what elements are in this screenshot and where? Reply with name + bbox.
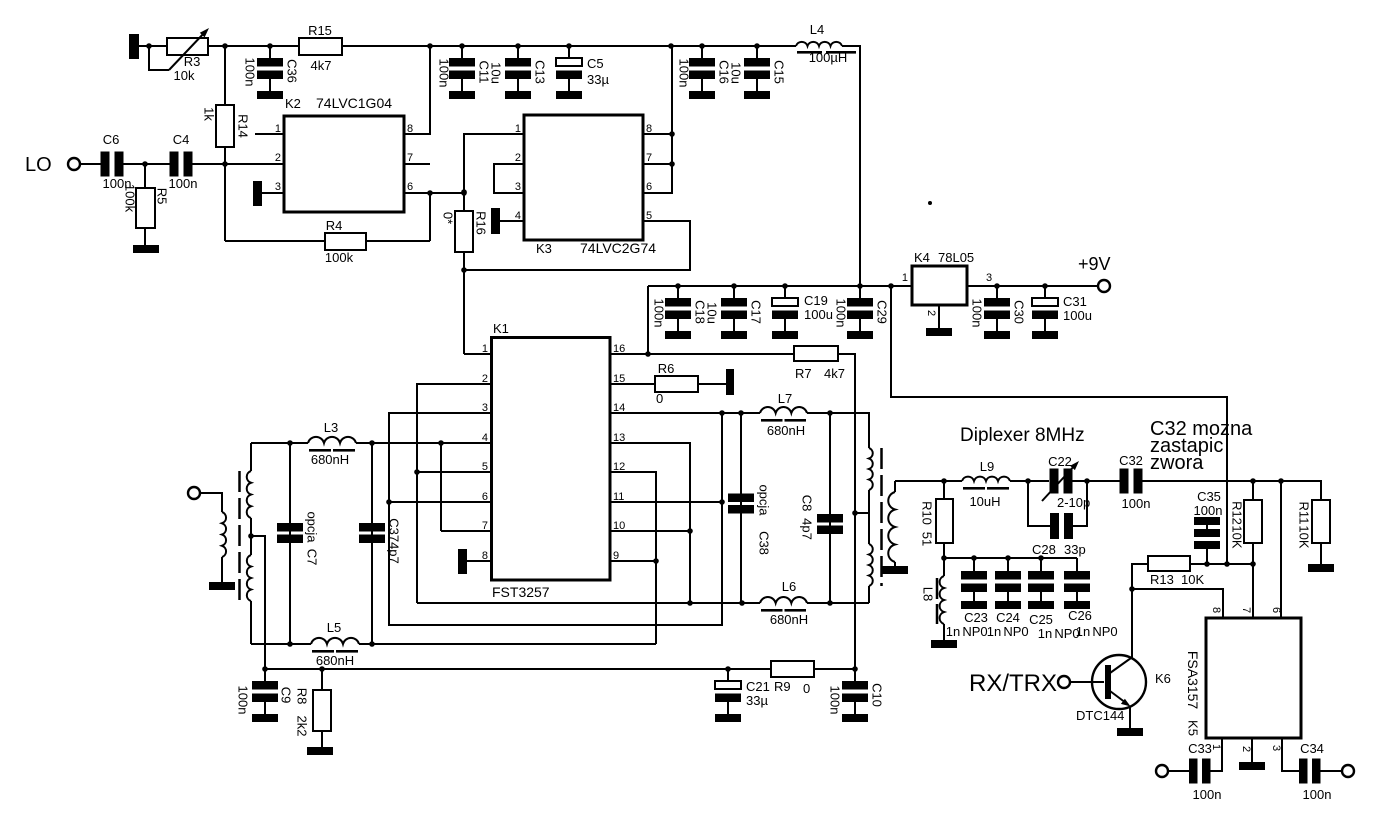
wire (center tap) [251, 536, 265, 669]
wire [359, 643, 656, 645]
ground [133, 245, 159, 253]
svg-text:C36: C36 [285, 59, 300, 83]
wire [647, 286, 649, 354]
inductor L8 [943, 558, 945, 576]
wire [123, 163, 170, 165]
svg-text:1: 1 [902, 272, 908, 284]
junction [1278, 478, 1284, 484]
svg-text:3: 3 [275, 181, 281, 193]
junction [438, 440, 444, 446]
svg-text:100n: 100n [1193, 787, 1222, 802]
junction [857, 283, 863, 289]
wire [643, 46, 672, 193]
svg-text:1n: 1n [1076, 624, 1090, 639]
svg-text:4p7: 4p7 [800, 518, 815, 540]
svg-text:0*: 0* [441, 212, 456, 224]
junction [459, 43, 465, 49]
svg-text:100µH: 100µH [809, 50, 848, 65]
wire (L5 line) [251, 643, 311, 645]
junction [994, 283, 1000, 289]
resistor R6 [610, 383, 655, 385]
svg-text:C22: C22 [1048, 454, 1072, 469]
svg-text:2-10p: 2-10p [1057, 495, 1090, 510]
resistor R7 [794, 346, 838, 361]
capacitor C7 [289, 443, 291, 644]
svg-text:C26: C26 [1068, 608, 1092, 623]
svg-text:100n: 100n [243, 58, 258, 87]
terminal RX out [1156, 765, 1168, 777]
svg-text:100n: 100n [834, 299, 849, 328]
wire [648, 285, 912, 287]
resistor R9 [771, 661, 814, 677]
svg-text:L6: L6 [782, 579, 796, 594]
ground [1117, 728, 1143, 736]
svg-text:33µ: 33µ [587, 72, 609, 87]
svg-text:R12: R12 [1230, 501, 1245, 525]
svg-text:C7: C7 [305, 549, 320, 566]
inductor L4 [796, 42, 842, 46]
svg-text:10u: 10u [729, 62, 744, 84]
junction [827, 600, 833, 606]
inductor L6 [760, 597, 807, 603]
svg-text:C6: C6 [103, 132, 120, 147]
wire [894, 481, 896, 492]
ground [926, 328, 952, 336]
svg-text:C15: C15 [772, 60, 787, 84]
junction [146, 43, 152, 49]
wire [190, 163, 284, 165]
wire [868, 490, 870, 544]
junction [687, 528, 693, 534]
svg-text:8: 8 [1210, 607, 1222, 613]
svg-text:3: 3 [986, 272, 992, 284]
junction [852, 510, 858, 516]
svg-text:74LVC1G04: 74LVC1G04 [316, 95, 392, 111]
capacitor C25 [1040, 558, 1042, 571]
svg-text:100n: 100n [652, 299, 667, 328]
svg-text:10K: 10K [1230, 525, 1245, 548]
svg-text:78L05: 78L05 [938, 250, 974, 265]
junction [888, 283, 894, 289]
svg-text:opcja: opcja [305, 511, 320, 543]
svg-text:100n: 100n [828, 686, 843, 715]
junction [852, 666, 858, 672]
capacitor C13 [517, 46, 519, 59]
wire [944, 557, 1077, 559]
wire [251, 442, 308, 444]
resistor R11 [1312, 500, 1330, 543]
svg-text:R4: R4 [326, 218, 343, 233]
svg-text:FSA3157: FSA3157 [1185, 651, 1201, 710]
ground [209, 582, 235, 590]
wire [467, 560, 491, 562]
wire [807, 413, 869, 448]
svg-text:7: 7 [1240, 607, 1252, 613]
svg-text:33µ: 33µ [746, 693, 768, 708]
wire (center tap) [855, 512, 869, 514]
svg-text:L7: L7 [778, 391, 792, 406]
wire [417, 602, 760, 604]
svg-text:100n: 100n [970, 299, 985, 328]
svg-text:C5: C5 [587, 56, 604, 71]
svg-text:L5: L5 [327, 620, 341, 635]
junction [1084, 478, 1090, 484]
junction [1005, 555, 1011, 561]
wire [842, 46, 860, 286]
svg-text:3: 3 [515, 181, 521, 193]
svg-text:10u: 10u [489, 62, 504, 84]
wire [643, 163, 672, 165]
capacitor C4 [170, 152, 179, 177]
wire [265, 668, 771, 670]
wire [250, 518, 252, 555]
inductor L3 [308, 437, 356, 443]
transformer T1 secondary lower [247, 555, 251, 601]
transformer T1 core [238, 471, 241, 601]
wire [610, 560, 656, 562]
svg-text:C25: C25 [1029, 612, 1053, 627]
svg-text:100n: 100n [236, 686, 251, 715]
ground [1308, 564, 1334, 572]
wire [464, 353, 491, 355]
svg-text:2: 2 [925, 310, 937, 316]
svg-text:10u: 10u [705, 302, 720, 324]
capacitor C26 [1076, 558, 1078, 571]
svg-text:C30: C30 [1012, 300, 1027, 324]
junction [386, 499, 392, 505]
svg-text:R9: R9 [774, 679, 791, 694]
junction [427, 43, 433, 49]
svg-text:R7: R7 [795, 366, 812, 381]
svg-text:C35: C35 [1197, 489, 1221, 504]
capacitor C5 [568, 46, 570, 59]
svg-text:10uH: 10uH [969, 494, 1000, 509]
wire [938, 305, 940, 328]
wire [80, 163, 101, 165]
wire [610, 472, 656, 644]
capacitor C6 [101, 152, 110, 177]
svg-text:100k: 100k [325, 250, 354, 265]
junction [725, 666, 731, 672]
svg-text:74LVC2G74: 74LVC2G74 [580, 240, 656, 256]
junction [971, 555, 977, 561]
wire [610, 530, 690, 532]
svg-text:4k7: 4k7 [311, 58, 332, 73]
wire [1010, 480, 1049, 482]
wire [441, 530, 491, 532]
svg-text:2: 2 [515, 152, 521, 164]
svg-text:K1: K1 [493, 321, 509, 336]
junction [1025, 478, 1031, 484]
svg-text:L3: L3 [324, 420, 338, 435]
junction [1042, 283, 1048, 289]
IC K1 FST3257 [492, 338, 611, 581]
wire [250, 443, 252, 471]
junction [739, 600, 745, 606]
svg-text:C10: C10 [870, 683, 885, 707]
svg-text:100n: 100n [169, 176, 198, 191]
junction [719, 499, 725, 505]
svg-text:NP0: NP0 [1092, 624, 1117, 639]
junction [427, 190, 433, 196]
junction [461, 190, 467, 196]
ground [129, 34, 139, 59]
ground [458, 549, 467, 574]
ground [931, 640, 957, 648]
wire [440, 443, 442, 531]
junction [1250, 561, 1256, 567]
svg-text:C17: C17 [749, 300, 764, 324]
svg-text:LO: LO [25, 154, 52, 176]
svg-text:100n: 100n [1194, 503, 1223, 518]
junction [369, 440, 375, 446]
svg-text:7: 7 [407, 152, 413, 164]
capacitor C22 (trimmer) [1050, 469, 1059, 494]
capacitor C35 [1194, 517, 1220, 525]
wire [417, 471, 491, 473]
IC K3 74LVC2G74 [524, 115, 643, 240]
svg-text:C34: C34 [1300, 741, 1324, 756]
svg-text:10K: 10K [1297, 525, 1312, 548]
svg-text:33p: 33p [1064, 542, 1086, 557]
svg-text:C23: C23 [964, 610, 988, 625]
wire [1132, 589, 1223, 618]
svg-text:100u: 100u [804, 307, 833, 322]
junction [248, 533, 254, 539]
wire [1321, 770, 1343, 772]
wire (TX bias) [891, 286, 1227, 564]
svg-text:Diplexer 8MHz: Diplexer 8MHz [960, 425, 1085, 446]
svg-text:3: 3 [1270, 745, 1282, 751]
svg-text:2k2: 2k2 [295, 716, 310, 737]
resistor R14 [224, 46, 226, 105]
svg-text:2: 2 [1240, 746, 1252, 752]
svg-text:1n: 1n [946, 624, 960, 639]
junction [669, 161, 675, 167]
junction [369, 641, 375, 647]
junction [1224, 561, 1230, 567]
wire [404, 163, 430, 165]
svg-text:C374p7: C374p7 [387, 518, 402, 564]
wire [1251, 738, 1253, 762]
svg-text:10k: 10k [174, 68, 195, 83]
svg-text:NP0: NP0 [962, 624, 987, 639]
svg-text:C33: C33 [1188, 741, 1212, 756]
junction [566, 43, 572, 49]
wire [250, 601, 252, 644]
svg-text:K3: K3 [536, 241, 552, 256]
svg-text:R10: R10 [920, 501, 935, 525]
junction [731, 283, 737, 289]
svg-text:6: 6 [407, 181, 413, 193]
transformer T1 secondary upper [247, 471, 251, 518]
wire [389, 413, 722, 625]
wire [139, 45, 167, 47]
capacitor C37 [371, 443, 373, 644]
ground [726, 369, 734, 395]
ground [307, 747, 333, 755]
svg-text:K6: K6 [1155, 671, 1171, 686]
wire [610, 443, 690, 603]
svg-text:+9V: +9V [1078, 254, 1111, 274]
junction [941, 555, 947, 561]
capacitor C28 [1028, 481, 1050, 526]
svg-text:100n: 100n [1122, 496, 1151, 511]
wire [610, 412, 760, 414]
svg-text:R15: R15 [308, 23, 332, 38]
svg-text:6: 6 [646, 181, 652, 193]
stray mark [928, 201, 932, 205]
junction [461, 189, 467, 195]
junction [1250, 478, 1256, 484]
capacitor C29 [859, 286, 861, 299]
svg-text:680nH: 680nH [770, 612, 808, 627]
wire [1190, 563, 1253, 565]
wire [895, 480, 962, 482]
resistor R10 [943, 481, 945, 499]
svg-text:100n: 100n [1303, 787, 1332, 802]
resistor R16 [463, 192, 465, 211]
wire [1281, 481, 1321, 500]
resistor R8 [321, 669, 323, 690]
wire [464, 221, 690, 270]
junction [1038, 555, 1044, 561]
junction [222, 161, 228, 167]
resistor R3 (trimmer) [167, 38, 208, 55]
junction [687, 600, 693, 606]
junction [1204, 561, 1210, 567]
svg-text:L9: L9 [980, 459, 994, 474]
svg-text:C32: C32 [1119, 453, 1143, 468]
svg-text:C19: C19 [804, 293, 828, 308]
capacitor C18 [677, 286, 679, 299]
junction [719, 410, 725, 416]
junction [461, 267, 467, 273]
svg-text:K5: K5 [1186, 720, 1201, 736]
wire [868, 586, 870, 603]
wire [838, 354, 855, 669]
svg-text:NP0: NP0 [1003, 624, 1028, 639]
junction [738, 410, 744, 416]
junction [675, 283, 681, 289]
wire [389, 501, 491, 503]
junction [262, 666, 268, 672]
svg-text:51: 51 [920, 532, 935, 546]
transistor K6 [1092, 655, 1146, 709]
svg-text:R14: R14 [236, 114, 251, 138]
transformer T1 primary [222, 512, 226, 557]
svg-text:1n: 1n [987, 624, 1001, 639]
svg-text:FST3257: FST3257 [492, 584, 550, 600]
wire [225, 240, 325, 242]
capacitor C33 [1189, 759, 1198, 784]
svg-text:R13: R13 [1150, 572, 1174, 587]
junction [142, 161, 148, 167]
svg-text:RX/TRX: RX/TRX [969, 670, 1057, 697]
svg-text:1k: 1k [202, 107, 217, 121]
inductor L7 [760, 407, 807, 413]
svg-text:R3: R3 [184, 54, 201, 69]
ground [1239, 762, 1265, 770]
resistor R4 [325, 233, 366, 250]
capacitor C38 [740, 413, 742, 603]
svg-text:C29: C29 [875, 300, 890, 324]
junction [287, 440, 293, 446]
capacitor C30 [996, 286, 998, 299]
svg-text:100u: 100u [1063, 308, 1092, 323]
junction [782, 283, 788, 289]
wire [643, 133, 672, 135]
junction [1129, 586, 1135, 592]
svg-text:C31: C31 [1063, 294, 1087, 309]
svg-text:C13: C13 [533, 60, 548, 84]
wire [610, 501, 722, 503]
junction [319, 666, 325, 672]
svg-text:680nH: 680nH [316, 653, 354, 668]
svg-text:100n: 100n [437, 59, 452, 88]
wire [1131, 589, 1133, 658]
svg-text:L8: L8 [921, 587, 936, 601]
svg-text:R5: R5 [155, 188, 170, 205]
svg-text:0: 0 [803, 681, 810, 696]
svg-text:4k7: 4k7 [824, 366, 845, 381]
wire [262, 192, 284, 194]
wire [221, 557, 223, 582]
wire [255, 133, 284, 135]
capacitor C19 [784, 286, 786, 299]
resistor R13 [1148, 556, 1190, 571]
inductor L5 [311, 638, 359, 644]
wire [967, 285, 1098, 287]
svg-text:DTC144: DTC144 [1076, 708, 1124, 723]
wire [494, 164, 524, 193]
capacitor C17 [733, 286, 735, 299]
capacitor C24 [1007, 558, 1009, 571]
junction [699, 43, 705, 49]
svg-text:0: 0 [656, 391, 663, 406]
transformer T2 secondary [888, 492, 895, 562]
svg-text:C8: C8 [800, 495, 815, 512]
wire [208, 45, 299, 47]
svg-text:L4: L4 [810, 22, 824, 37]
wire [1210, 738, 1222, 771]
junction [287, 641, 293, 647]
wire [404, 192, 464, 194]
transformer T2 primary lower [869, 544, 873, 586]
svg-text:R16: R16 [474, 211, 489, 235]
capacitor C21 [727, 669, 729, 682]
wire [200, 493, 222, 512]
wire [610, 353, 794, 355]
wire [149, 46, 169, 70]
ground [491, 208, 500, 234]
svg-text:2: 2 [275, 152, 281, 164]
wire [429, 193, 431, 241]
junction [222, 43, 228, 49]
wire [500, 220, 524, 222]
ground [882, 566, 908, 574]
wire [342, 45, 796, 47]
capacitor C23 [973, 558, 975, 571]
svg-text:680nH: 680nH [311, 452, 349, 467]
capacitor C11 [461, 46, 463, 59]
wire [417, 384, 491, 603]
wire [1168, 770, 1189, 772]
svg-text:K2: K2 [285, 96, 301, 111]
wire [807, 602, 869, 604]
wire [1142, 480, 1281, 482]
svg-text:680nH: 680nH [767, 423, 805, 438]
